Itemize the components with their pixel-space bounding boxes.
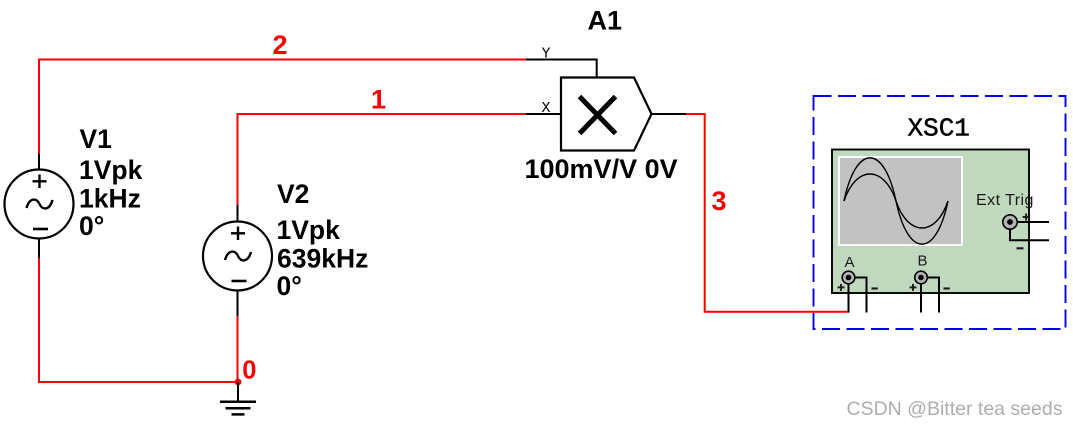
svg-text:CSDN @Bitter tea seeds: CSDN @Bitter tea seeds — [847, 398, 1063, 420]
wire net 0 vertical from V1 bottom — [38, 258, 40, 383]
wire net 0 horizontal bottom segment — [38, 381, 238, 383]
junction node 0 — [235, 379, 242, 386]
ground — [220, 382, 256, 414]
svg-text:Y: Y — [542, 46, 551, 63]
wire net 1 black lead into X pin — [526, 113, 561, 115]
XSC1 Ext Trig terminal — [1003, 214, 1049, 249]
svg-text:2: 2 — [273, 30, 288, 60]
wire net 2 horizontal segment — [38, 59, 526, 61]
XSC1 screen — [839, 157, 962, 245]
XSC1 selection box (dashed) — [814, 96, 1066, 329]
wire net 3 red segments — [686, 114, 849, 312]
svg-text:X: X — [542, 100, 551, 117]
wire net 3 black lead from A1 output — [652, 113, 687, 115]
oscilloscope XSC1 — [814, 96, 1066, 329]
svg-text:Ext Trig: Ext Trig — [976, 192, 1034, 209]
svg-text:1Vpk: 1Vpk — [79, 155, 143, 185]
AC source V1 — [5, 154, 74, 258]
XSC1 terminal A — [838, 254, 878, 313]
svg-text:V2: V2 — [277, 179, 309, 209]
svg-text:XSC1: XSC1 — [908, 114, 970, 144]
XSC1 screen waveforms — [844, 158, 948, 244]
svg-text:A1: A1 — [588, 6, 623, 36]
XSC1 body — [832, 150, 1029, 294]
wire net 1 horizontal segment — [237, 113, 527, 115]
multiplier A1 — [561, 78, 652, 151]
wire net 2 black lead into Y pin — [526, 60, 597, 79]
svg-text:639kHz: 639kHz — [277, 243, 368, 273]
svg-text:0°: 0° — [277, 271, 302, 301]
wire net 0 vertical from V2 bottom — [237, 316, 239, 383]
AC source V2 — [203, 205, 272, 316]
svg-text:1Vpk: 1Vpk — [277, 215, 341, 245]
svg-text:1: 1 — [371, 84, 386, 114]
svg-text:3: 3 — [712, 186, 727, 216]
svg-text:1kHz: 1kHz — [79, 184, 141, 214]
wire net 1 vertical segment at V2 top — [237, 113, 239, 206]
svg-text:V1: V1 — [80, 124, 112, 154]
wire net 2 vertical segment at V1 top — [38, 59, 40, 157]
svg-text:A: A — [845, 254, 855, 271]
svg-text:0°: 0° — [79, 211, 104, 241]
svg-text:0: 0 — [242, 357, 256, 385]
XSC1 terminal B — [910, 252, 950, 312]
svg-text:100mV/V 0V: 100mV/V 0V — [525, 154, 678, 184]
svg-text:B: B — [918, 252, 928, 269]
